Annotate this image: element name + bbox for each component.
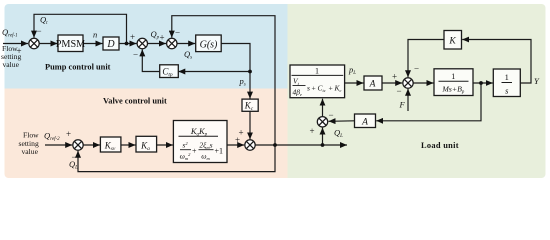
- svg-text:value: value: [3, 60, 20, 69]
- svg-text:F: F: [399, 100, 406, 110]
- svg-text:+: +: [130, 32, 135, 42]
- wire V1 to Ksv: [83, 144, 100, 146]
- wire S2 to S3: [148, 43, 166, 45]
- wire QL bottom feedback to V1: [78, 145, 275, 172]
- svg-text:A: A: [361, 118, 368, 128]
- svg-text:+: +: [192, 147, 197, 156]
- node after D: [125, 42, 129, 46]
- wire Ctp to S2 bottom: [142, 49, 159, 71]
- svg-text:G(s): G(s): [200, 40, 218, 51]
- wire input Qref2: [45, 144, 72, 146]
- fraction bar valve main: [179, 135, 219, 137]
- svg-text:PMSM: PMSM: [56, 39, 85, 50]
- svg-text:1: 1: [315, 66, 319, 75]
- svg-text:n: n: [93, 30, 97, 40]
- background valve control unit region: [5, 89, 288, 179]
- block Ms+Bp: [434, 69, 473, 96]
- svg-text:Ms+Bp: Ms+Bp: [441, 85, 465, 96]
- svg-text:Valve control unit: Valve control unit: [103, 97, 167, 106]
- wire Ka to valve transfer block: [157, 144, 173, 146]
- summing junction S1: [29, 38, 39, 48]
- node Ps: [248, 70, 252, 74]
- svg-text:−: −: [175, 28, 180, 38]
- wire K to S6 top: [408, 40, 444, 78]
- block Ka: [136, 136, 157, 152]
- block Kc: [242, 99, 258, 111]
- svg-text:+: +: [239, 128, 244, 138]
- wire S1 to PMSM: [39, 43, 57, 45]
- node main line QL left: [273, 143, 277, 147]
- svg-text:K: K: [448, 37, 456, 47]
- svg-text:+: +: [160, 33, 165, 43]
- block K: [444, 31, 462, 50]
- wire G(s) output down to Ps node: [221, 44, 250, 72]
- svg-text:+: +: [66, 129, 71, 139]
- svg-text:A: A: [369, 80, 376, 90]
- wire input Qref1: [3, 43, 28, 45]
- wire load block to A1: [345, 82, 364, 84]
- block 1/s: [493, 69, 520, 97]
- block load hydraulic transfer: [290, 65, 345, 98]
- wire D to S2: [119, 43, 137, 45]
- block valve transfer function: [173, 121, 227, 163]
- summing junction S3: [167, 38, 177, 48]
- svg-text:D: D: [106, 39, 115, 50]
- svg-text:+: +: [17, 46, 22, 56]
- wire F input to S6: [407, 89, 409, 111]
- summing junction S4: [245, 140, 255, 150]
- svg-text:−: −: [329, 110, 334, 120]
- svg-text:−: −: [133, 50, 138, 60]
- svg-text:−: −: [37, 26, 42, 36]
- wire valve block to S4: [227, 144, 244, 146]
- wire Ps node to Ctp: [178, 71, 250, 73]
- node after Ms+Bp: [479, 81, 483, 85]
- svg-text:+: +: [392, 72, 397, 82]
- svg-text:+: +: [312, 84, 316, 93]
- block A1: [364, 76, 382, 90]
- wire S5 up to load block: [322, 99, 324, 117]
- block A2: [355, 114, 376, 128]
- wire Ps down to Kc: [249, 72, 251, 99]
- wire QL feedback node up to S3 top: [172, 16, 275, 145]
- svg-text:−: −: [414, 64, 419, 74]
- wire Qt feedback from node to S1: [34, 14, 127, 43]
- svg-text:value: value: [22, 147, 39, 156]
- node main line QL right: [321, 143, 325, 147]
- summing junction V1: [73, 140, 83, 150]
- svg-text:+1: +1: [215, 147, 224, 156]
- svg-text:2ξms: 2ξms: [199, 141, 212, 151]
- svg-text:−: −: [397, 86, 402, 96]
- block G(s): [196, 35, 222, 52]
- svg-text:Load unit: Load unit: [421, 141, 459, 150]
- wire Ms+Bp to 1/s: [473, 82, 493, 84]
- summing junction S5: [317, 117, 327, 127]
- wire Ksv to Ka: [121, 144, 136, 146]
- wire A2 to S5: [329, 120, 355, 123]
- wire PMSM to D: [83, 43, 103, 45]
- wire S6 to Ms+Bp block: [413, 82, 433, 84]
- block Ctp: [160, 65, 179, 78]
- wire Kc to S4: [249, 111, 251, 139]
- wire S3 to G(s): [177, 43, 195, 45]
- summing junction S2: [137, 38, 147, 48]
- wire main flow line S4 to arrow: [255, 144, 347, 146]
- block Ksv: [100, 137, 121, 152]
- svg-text:s: s: [307, 84, 310, 93]
- svg-text:1: 1: [451, 72, 455, 81]
- svg-text:Pump control unit: Pump control unit: [45, 63, 111, 72]
- svg-text:+: +: [329, 84, 333, 93]
- block D: [103, 37, 119, 50]
- wire A1 to S6: [382, 82, 402, 84]
- wire node down to A2: [376, 83, 481, 121]
- svg-text:1: 1: [505, 72, 509, 82]
- block PMSM: [58, 35, 83, 52]
- svg-text:+: +: [310, 126, 315, 136]
- background pump control unit region: [5, 4, 288, 89]
- summing junction S6: [403, 78, 413, 88]
- wire Y output and feedback up to K: [462, 40, 531, 84]
- background load unit region: [288, 4, 546, 178]
- fraction bar load main: [292, 74, 344, 76]
- wire node up to S5: [322, 128, 324, 145]
